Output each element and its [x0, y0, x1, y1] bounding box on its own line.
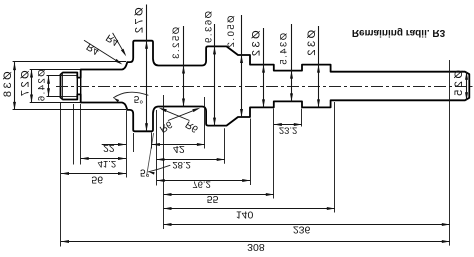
note remaining radii [352, 27, 446, 38]
svg-text:76.2: 76.2 [192, 179, 211, 190]
extension M right 273.8 [273, 109, 275, 199]
svg-text:Ø63.9: Ø63.9 [203, 11, 214, 44]
extension F right 335 [334, 102, 336, 213]
leader R4 right [113, 33, 125, 54]
svg-text:28.2: 28.2 [172, 159, 191, 170]
dim 38 extension top [13, 61, 126, 63]
svg-text:56: 56 [91, 173, 103, 185]
extension neck2 205 [204, 97, 206, 149]
dimension 308 [61, 241, 450, 243]
angle 5deg flange line [147, 133, 154, 176]
dimension diameter 34.5 [291, 24, 293, 101]
extension flange left [133, 133, 135, 152]
svg-text:22: 22 [103, 142, 115, 154]
svg-text:Ø52.3: Ø52.3 [171, 27, 182, 60]
extension B chamfer 224.7 [224, 128, 226, 164]
dimension 76.2 [157, 180, 251, 182]
dimension 236 [164, 224, 450, 226]
thread minor line top [63, 75, 78, 77]
svg-text:55: 55 [207, 193, 219, 205]
dimension 28.2 [156, 159, 224, 161]
dimension 55 [164, 194, 274, 196]
dimension 140 [164, 208, 335, 210]
dimension 41.2 [81, 158, 126, 160]
svg-text:Ø32: Ø32 [306, 30, 318, 58]
leader R6 left [168, 109, 198, 121]
svg-text:Ø27: Ø27 [19, 70, 31, 98]
dimension 42 [152, 144, 205, 146]
svg-text:42: 42 [173, 143, 185, 155]
thread minor line bottom [63, 96, 78, 98]
svg-text:Ø32: Ø32 [251, 30, 263, 58]
thread chamfer line [62, 73, 64, 100]
dim 24.6 extension top [47, 75, 63, 77]
extension neck1 156.7 [156, 110, 158, 186]
svg-text:5°: 5° [140, 167, 150, 178]
extension left end [60, 103, 62, 247]
svg-text:308: 308 [247, 241, 265, 253]
dimension diameter 52.3 [183, 26, 185, 107]
dimension diameter 72 [146, 5, 148, 132]
leader R4 left [84, 40, 121, 63]
shaft outline top [61, 41, 470, 78]
thread end line [76, 73, 78, 100]
groove end line [80, 70, 82, 103]
svg-text:41.2: 41.2 [98, 158, 117, 169]
dimension diameter 63.9 [214, 24, 216, 126]
dimension diameter 32 groove [263, 28, 265, 107]
dimension 56 [61, 173, 126, 175]
dimension diameter 24.6 [48, 76, 50, 96]
svg-text:140: 140 [236, 209, 254, 221]
shaft left end face [60, 75, 62, 98]
svg-text:Ø34.5: Ø34.5 [278, 33, 289, 66]
dim 27 extension top [30, 69, 81, 71]
extension tail dim line down [449, 60, 451, 246]
svg-text:Ø25: Ø25 [453, 70, 465, 98]
extension flange right [151, 133, 153, 149]
dimension diameter 25 tail [466, 72, 468, 101]
svg-text:23.2: 23.2 [279, 124, 298, 135]
dim 38 extension bottom [13, 109, 126, 111]
extension 250 rowF [250, 119, 252, 186]
svg-text:Ø72: Ø72 [134, 7, 146, 35]
dimension diameter 32 right [318, 26, 320, 107]
extension collar 126 [126, 111, 128, 178]
dimension diameter 27 [31, 70, 33, 103]
angle 5deg cone arc [114, 92, 149, 98]
svg-text:Ø50.2: Ø50.2 [226, 16, 237, 49]
leader R6 right [161, 109, 190, 121]
svg-text:5°: 5° [134, 93, 144, 104]
svg-text:Ø38: Ø38 [2, 71, 14, 99]
angle 5deg flange arc [149, 165, 171, 172]
svg-text:Ø24.6: Ø24.6 [37, 69, 48, 102]
dim 24.6 extension bottom [47, 96, 63, 98]
dimension diameter 38 [14, 62, 16, 110]
centerline [56, 86, 473, 88]
extension thread end [73, 104, 75, 165]
extension A left [163, 95, 165, 229]
extension groove 80.7 [80, 104, 82, 165]
shaft right end face [468, 75, 470, 98]
svg-text:Remaining radii. R3: Remaining radii. R3 [352, 27, 446, 38]
dimension 23.2 recess width [274, 124, 302, 126]
shaft outline bottom [61, 94, 470, 131]
extension recess right [301, 109, 303, 127]
svg-text:236: 236 [293, 224, 311, 236]
dimension 22 [102, 144, 126, 146]
dim 27 extension bottom [30, 102, 81, 104]
dimension diameter 50.2 [241, 15, 243, 117]
